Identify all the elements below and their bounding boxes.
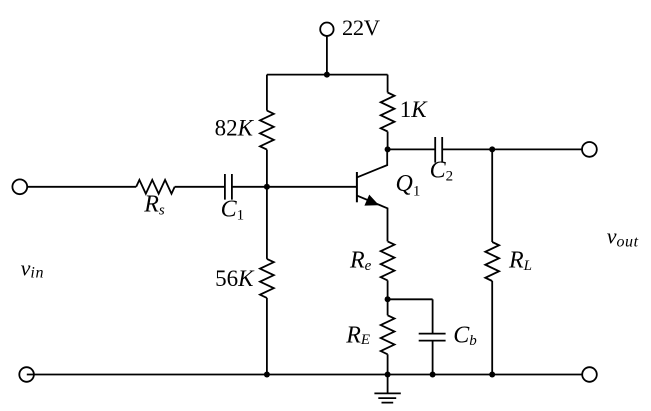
wire: bottom rail bbox=[27, 374, 582, 376]
wire: RE to bottom rail bbox=[387, 354, 389, 374]
resistor RL bbox=[485, 242, 499, 281]
wire: C2 to output terminal bbox=[442, 148, 582, 150]
wire: Rs to C1 bbox=[175, 186, 225, 188]
transistor Q1 base bar bbox=[356, 172, 358, 202]
terminal: input (top-left) bbox=[12, 179, 27, 194]
node: Cb bottom dot bbox=[430, 372, 436, 378]
wire: 56K to bottom rail bbox=[266, 298, 268, 375]
capacitor C2 plates bbox=[435, 137, 442, 163]
node: output junction dot bbox=[489, 146, 495, 152]
wire: right vertical top rail to 1K bbox=[387, 75, 389, 93]
svg-text:22V: 22V bbox=[342, 15, 380, 40]
wire: Cb to bottom rail bbox=[432, 341, 434, 375]
svg-text:82K: 82K bbox=[215, 116, 255, 141]
terminal: bottom-left bbox=[19, 367, 34, 382]
wire: emitter node to Cb branch bbox=[388, 298, 433, 300]
svg-text:1K: 1K bbox=[400, 97, 429, 122]
svg-text:56K: 56K bbox=[215, 266, 255, 291]
ground bbox=[374, 375, 400, 403]
capacitor Cb plates bbox=[419, 334, 446, 341]
resistor 56K bbox=[260, 259, 274, 298]
wire: 1K to collector node bbox=[387, 132, 389, 150]
terminal: 22V supply circle bbox=[320, 23, 333, 36]
transistor Q1 emitter lead bbox=[357, 196, 388, 242]
node: RL bottom dot bbox=[489, 372, 495, 378]
resistor Re bbox=[381, 241, 395, 280]
transistor Q1 emitter arrowhead bbox=[365, 196, 378, 206]
terminal: bottom-right bbox=[582, 367, 597, 382]
node: 56K bottom dot bbox=[264, 372, 270, 378]
node: collector junction dot bbox=[385, 146, 391, 152]
wire: collector to C2 bbox=[388, 148, 436, 150]
wire: top supply rail bbox=[267, 74, 388, 76]
wire: Re to emitter node bbox=[387, 280, 389, 315]
resistor 82K bbox=[260, 111, 274, 150]
wire: RL to bottom rail bbox=[491, 281, 493, 375]
wire: left vertical, top rail down to 82K bbox=[266, 75, 268, 111]
node: supply junction dot bbox=[324, 72, 330, 78]
resistor RE bbox=[381, 315, 395, 354]
capacitor C1 plates bbox=[225, 174, 232, 200]
wire: C1 to base node to transistor base bbox=[232, 186, 356, 188]
resistor 1K bbox=[381, 93, 395, 132]
node: base junction dot bbox=[264, 184, 270, 190]
node: emitter bypass junction dot bbox=[385, 296, 391, 302]
resistor Rs (zigzag) bbox=[136, 180, 175, 194]
node: ground junction dot bbox=[385, 372, 391, 378]
wire: base node down to 56K bbox=[266, 187, 268, 259]
wire: 82K to base node bbox=[266, 150, 268, 187]
wire: RL branch vertical bbox=[491, 149, 493, 242]
wire: 22V stub bbox=[326, 36, 328, 75]
wire: Cb top branch bbox=[432, 299, 434, 333]
terminal: output (top-right) bbox=[582, 142, 597, 157]
transistor Q1 collector lead bbox=[357, 149, 387, 177]
wire: input top wire from terminal to Rs bbox=[27, 186, 136, 188]
